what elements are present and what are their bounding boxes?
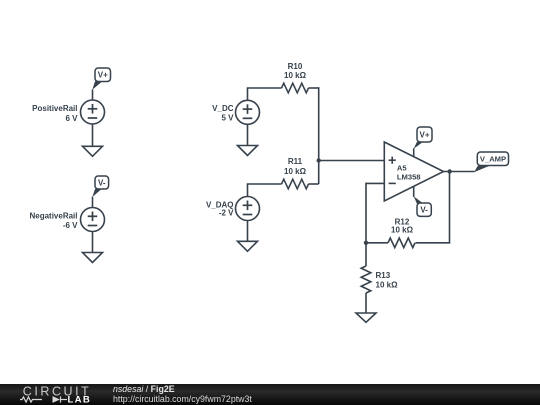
svg-text:10 kΩ: 10 kΩ <box>284 71 307 80</box>
svg-text:V_AMP: V_AMP <box>480 155 506 164</box>
svg-text:V+: V+ <box>98 71 108 80</box>
svg-text:R10: R10 <box>288 62 303 71</box>
svg-text:NegativeRail: NegativeRail <box>29 211 77 220</box>
svg-text:V-: V- <box>420 206 428 215</box>
svg-text:LAB: LAB <box>68 395 92 405</box>
svg-text:-6 V: -6 V <box>63 221 78 230</box>
svg-text:LM358: LM358 <box>397 172 421 181</box>
svg-text:-2 V: -2 V <box>219 208 234 217</box>
svg-text:6 V: 6 V <box>65 114 78 123</box>
svg-text:A5: A5 <box>397 164 407 173</box>
svg-text:V-: V- <box>98 178 106 187</box>
svg-text:V+: V+ <box>419 130 429 139</box>
svg-text:PositiveRail: PositiveRail <box>32 104 77 113</box>
svg-text:10 kΩ: 10 kΩ <box>391 226 414 235</box>
svg-text:5 V: 5 V <box>221 114 234 123</box>
svg-text:10 kΩ: 10 kΩ <box>284 167 307 176</box>
svg-text:V_DC: V_DC <box>212 104 234 113</box>
svg-text:R11: R11 <box>288 157 303 166</box>
svg-text:R13: R13 <box>376 271 391 280</box>
svg-text:10 kΩ: 10 kΩ <box>376 280 399 289</box>
